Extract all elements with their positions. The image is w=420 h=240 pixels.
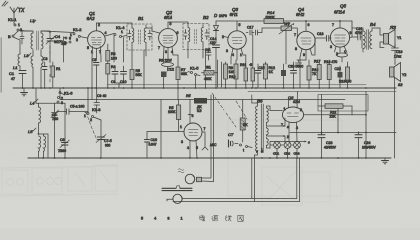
B1 pin wires	[132, 50, 146, 88]
DK dark component	[186, 94, 207, 113]
speaker Y1 label	[389, 25, 401, 40]
feedback vertical	[160, 100, 162, 159]
resistor R10	[229, 60, 238, 88]
B1 core dashes	[139, 30, 141, 44]
switch K1-1	[8, 17, 22, 39]
mech link dashed 2	[236, 101, 247, 119]
band switch K1-6	[57, 91, 73, 106]
Q5 rail junction	[339, 20, 341, 22]
variable capacitor C4	[46, 32, 63, 62]
rectifier Q6 label	[288, 95, 301, 104]
electrolytic C12	[161, 68, 174, 89]
series cap C5a	[57, 105, 88, 115]
resistor R17	[314, 60, 321, 89]
volume potentiometer WY	[279, 21, 294, 64]
cap C22	[335, 66, 343, 88]
Q1 plate wire to B1	[96, 23, 132, 27]
B2 pin wires	[188, 50, 206, 63]
phono plug P2	[167, 194, 182, 203]
resistor R5	[130, 69, 142, 88]
Q6 cathode output	[304, 114, 366, 116]
tube Q7 top pin	[188, 114, 194, 123]
chassis ground right	[382, 158, 389, 164]
Q5 cathode resistor	[337, 53, 348, 62]
mech link dashed	[212, 93, 236, 127]
speaker Y2	[390, 63, 407, 89]
wire K1-4 down	[114, 36, 124, 63]
IF transformer B2 dashed box	[183, 24, 209, 50]
AVC rail left drop	[59, 88, 61, 100]
tap arrow a	[284, 125, 290, 129]
Q6 plate feeds	[270, 110, 285, 126]
ground symbol	[21, 88, 28, 96]
main ground bus	[13, 87, 396, 89]
osc coil upper L4	[36, 88, 41, 134]
dial lamp feed	[262, 136, 285, 152]
switch K1-2	[64, 27, 88, 45]
Q2 plate wire to B2	[168, 22, 188, 27]
resistor R1 vertical	[51, 62, 61, 88]
band contacts 6,5	[61, 37, 71, 47]
osc tap wire	[39, 134, 49, 158]
Q4 junction dot on rail	[305, 20, 307, 22]
diode D label	[214, 13, 227, 18]
dial lamp CD1	[273, 141, 280, 158]
padder C6	[58, 103, 70, 158]
B1 secondary winding	[144, 25, 146, 50]
tube Q2 label	[164, 10, 173, 20]
gang dashed link	[49, 46, 51, 84]
lower bus dots	[42, 157, 367, 159]
page corner mark	[2, 1, 8, 6]
antenna TX	[10, 7, 25, 24]
Q3 grid wire	[222, 36, 228, 38]
filter choke outline	[318, 95, 368, 112]
caption dian yuan xian tu	[200, 215, 243, 221]
rectifier tube Q6	[281, 107, 304, 130]
dial lamp CD2	[284, 142, 291, 158]
cathode resistor R6	[159, 57, 174, 71]
Q1 pin wires down	[92, 47, 101, 89]
L4 coil label	[30, 99, 38, 106]
power transformer B5 core	[261, 104, 263, 153]
gang dashed link 2	[86, 112, 97, 140]
B1 primary winding	[132, 27, 134, 50]
resistor R3	[106, 44, 117, 61]
lamp bus wire	[270, 144, 293, 146]
B2 secondary tuning cap	[205, 30, 209, 40]
cap C13	[291, 62, 297, 88]
B2 primary winding	[188, 28, 190, 50]
filter cap C23	[318, 133, 337, 159]
heater wire parallel to bus	[107, 84, 366, 86]
loop right vertical pair	[297, 158, 300, 202]
Q5 plate to B4 wire	[350, 36, 352, 39]
output transformer B4	[352, 28, 377, 52]
power transformer B5 primary	[252, 95, 258, 155]
power transformer B5 HT secondary	[267, 106, 286, 126]
variable capacitor C7	[96, 120, 112, 158]
AVC rail	[60, 99, 345, 101]
wires under B1	[115, 79, 124, 88]
tube Q7	[180, 123, 206, 150]
grid cap C9b	[94, 88, 106, 113]
left margin shadow	[0, 38, 2, 92]
socket bar	[162, 186, 192, 191]
mixer feed vertical	[91, 88, 93, 100]
cap C15	[255, 64, 265, 88]
cap C14	[210, 37, 220, 88]
cap C11	[205, 48, 211, 60]
Q3 pin wires	[231, 49, 246, 65]
resistor R22 horizontal	[202, 71, 218, 82]
tube Q3 label	[230, 7, 239, 17]
Q4 pin wires	[300, 49, 312, 89]
Q4 cathode ground	[296, 60, 307, 67]
osc tap node	[38, 133, 40, 135]
wire column x217	[217, 60, 219, 87]
tube Q3	[222, 21, 246, 57]
B1 secondary tuning cap	[148, 30, 152, 40]
wire switch to L2	[19, 30, 32, 31]
IF transformer B1 dashed box	[127, 24, 152, 50]
cap C20	[281, 64, 303, 88]
coupling cap C2	[20, 31, 24, 44]
cap C16	[145, 132, 162, 159]
capacitor C1	[9, 71, 26, 89]
CT jack	[229, 140, 239, 147]
Y2 return wire down	[394, 88, 396, 158]
tap wire c	[270, 141, 310, 149]
trimmer C5	[51, 103, 59, 158]
tube Q4 label	[296, 7, 305, 17]
filter cap C24	[355, 133, 377, 159]
tube Q5	[330, 21, 352, 56]
resistor R8 wire	[206, 62, 212, 88]
Q7 pin wires	[190, 132, 208, 158]
resistor R12	[249, 63, 255, 88]
B2 core dashes	[195, 30, 197, 44]
pot wiper to Q4 grid	[292, 28, 298, 38]
Q6 top pins	[289, 92, 298, 109]
switch K1-3	[84, 107, 101, 122]
osc to mixer wire	[94, 117, 102, 120]
osc coil lower L5	[28, 128, 46, 158]
switch K1-4	[114, 25, 127, 38]
tube Q7 grid wire	[161, 131, 184, 133]
resistor R4	[106, 61, 116, 88]
bottom loop wire	[167, 199, 300, 202]
wire L2 top to K1-2 row	[41, 31, 74, 33]
B+ node dots	[321, 114, 367, 134]
screen resistor R7	[176, 67, 188, 88]
antenna coil L1	[13, 37, 20, 70]
choke drop wire	[338, 106, 352, 133]
power transformer B5 filament winding 1	[267, 127, 286, 136]
mains plug P1	[178, 169, 214, 184]
shortwave coil L3/L4	[24, 50, 43, 88]
mixer osc grid vertical	[87, 88, 89, 113]
resistor R11	[240, 62, 248, 88]
tap arrow b	[284, 135, 290, 139]
power cord pair down	[211, 95, 214, 182]
tone cap C21	[352, 21, 362, 48]
filter rail	[290, 132, 396, 134]
IF cap C9	[111, 66, 118, 84]
Q2 pin wires	[164, 47, 179, 68]
antenna coil transformer L2	[20, 18, 50, 50]
dial lamp CD3	[294, 141, 301, 158]
resistor R15 vertical	[168, 100, 181, 132]
plate resistor R14	[264, 10, 284, 24]
resistor R16	[307, 60, 318, 88]
cathode cap C8	[92, 58, 99, 88]
resistor R19	[339, 62, 351, 88]
resistor R21	[318, 104, 352, 119]
Q5 pin wires	[335, 46, 348, 53]
switch K2	[240, 144, 253, 153]
bus junction dots	[22, 87, 367, 89]
resistor R13	[264, 62, 275, 88]
Q6 bottom pins	[289, 122, 297, 141]
switch K1-5	[188, 66, 200, 89]
Q1 anode side wire to switch K1-4	[105, 34, 114, 37]
B2 primary tuning cap	[184, 30, 187, 40]
coupling cap to Q5	[312, 32, 331, 55]
tube Q4	[294, 21, 315, 57]
B1 primary tuning cap	[128, 30, 131, 40]
B1 to Q2 grid wire	[146, 28, 160, 33]
tube Q1 label	[87, 11, 96, 21]
padder cap C3	[43, 57, 48, 88]
AVC drop to bus	[177, 88, 179, 100]
B+ vertical right	[365, 92, 367, 159]
transformer primary drop pair	[252, 155, 255, 202]
diode D	[214, 21, 219, 43]
power transformer B5 filament winding 2	[267, 138, 271, 149]
heater rail right	[248, 91, 396, 93]
speaker Y1	[377, 28, 395, 48]
fuse BK	[240, 100, 248, 143]
wire column x221	[220, 62, 222, 87]
B2 secondary winding	[201, 25, 203, 50]
C23 feed vertical	[321, 95, 323, 135]
cap C19	[392, 44, 403, 63]
node on wire	[49, 31, 51, 33]
tube Q5 label	[334, 4, 347, 15]
node under caps	[252, 35, 254, 64]
B+ top rail	[216, 20, 352, 22]
Q7 plate wire up	[189, 100, 191, 115]
resistor R18	[324, 60, 337, 88]
lower ground bus	[28, 157, 391, 159]
IF cap C10	[120, 66, 127, 84]
oscillator top wire	[36, 102, 65, 104]
tube Q2	[158, 22, 179, 54]
coupling caps C17	[246, 26, 281, 36]
wire contact column down	[63, 37, 65, 62]
tube Q1	[87, 23, 107, 54]
resistor R9	[224, 62, 234, 88]
terminal labels	[256, 150, 263, 154]
